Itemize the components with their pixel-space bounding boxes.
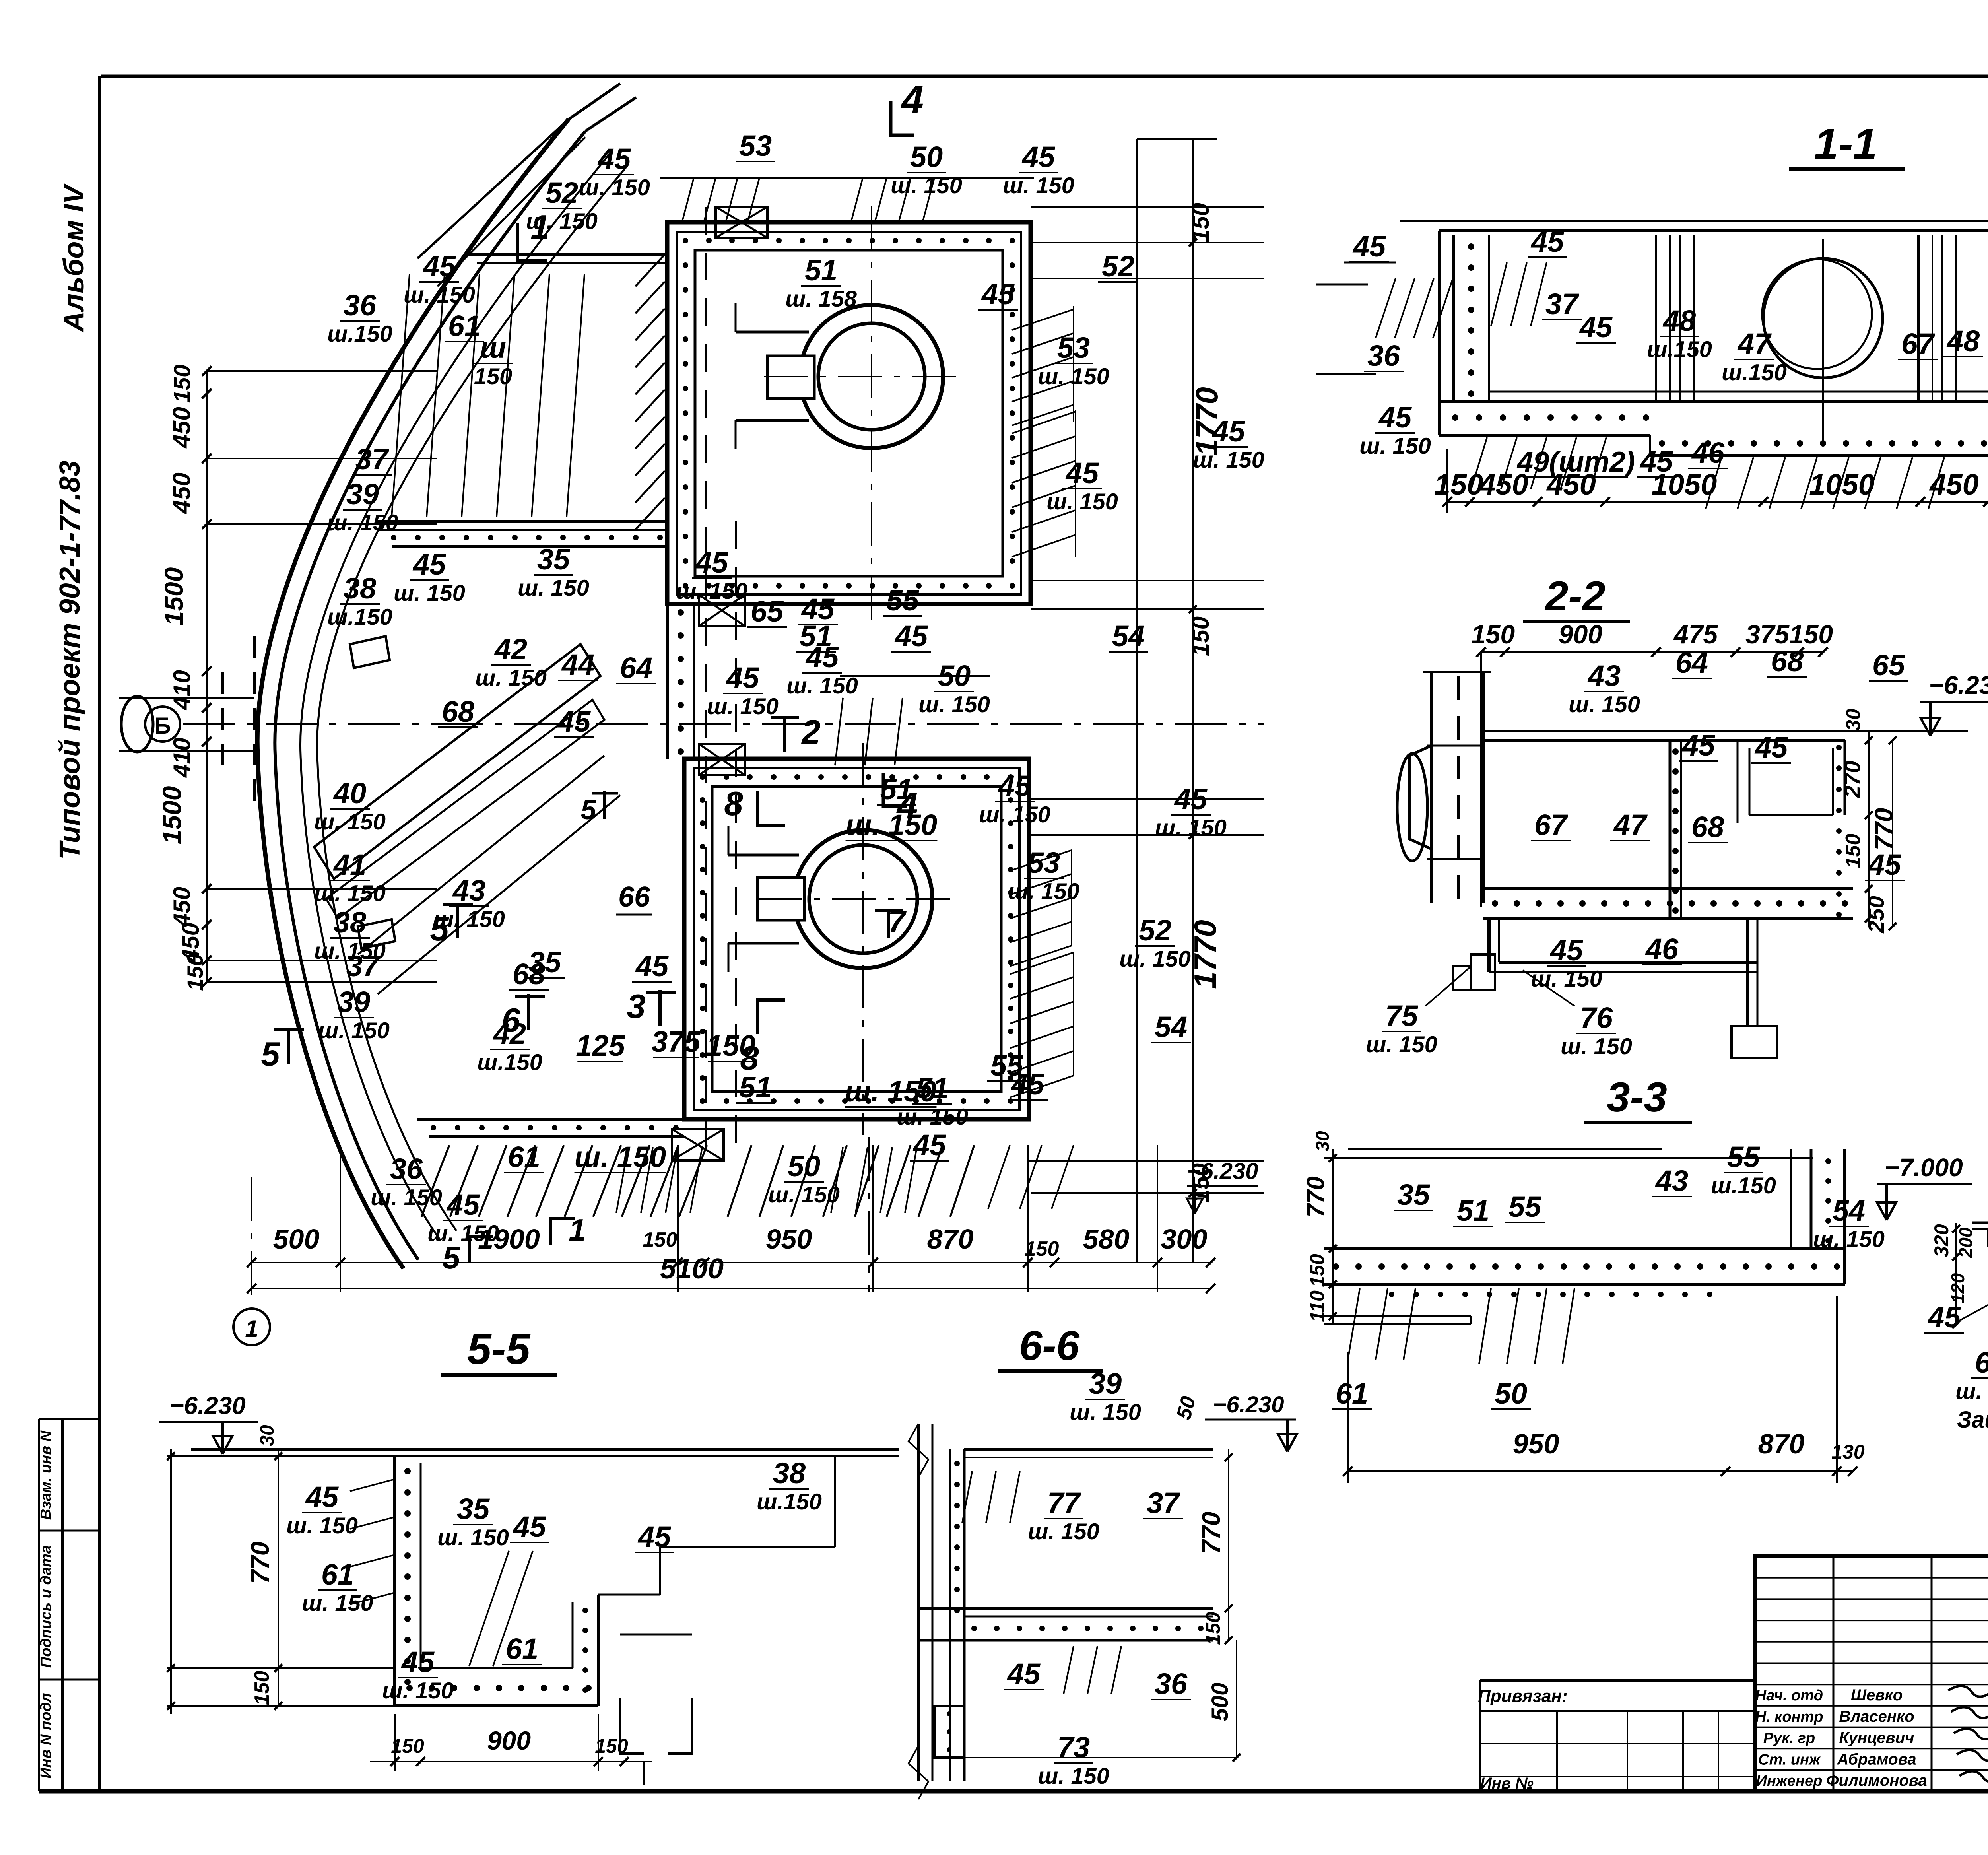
svg-text:30: 30: [1312, 1131, 1333, 1152]
svg-text:8: 8: [724, 785, 743, 823]
svg-text:ш. 150: ш. 150: [918, 692, 990, 717]
svg-text:50: 50: [910, 140, 943, 173]
svg-text:ш. 150: ш. 150: [371, 1185, 442, 1210]
svg-text:150: 150: [1202, 1612, 1224, 1645]
svg-text:3: 3: [627, 988, 645, 1026]
svg-text:45: 45: [1065, 456, 1099, 489]
svg-text:Б: Б: [154, 713, 171, 739]
svg-text:6-6: 6-6: [1019, 1323, 1079, 1369]
svg-text:35: 35: [528, 946, 562, 979]
svg-text:64: 64: [620, 651, 652, 684]
svg-text:53: 53: [739, 129, 772, 162]
svg-text:45: 45: [1927, 1301, 1961, 1334]
svg-text:450: 450: [168, 407, 196, 449]
svg-text:64: 64: [1675, 646, 1708, 679]
svg-text:36: 36: [390, 1152, 423, 1185]
svg-text:ш. 150: ш. 150: [286, 1513, 358, 1538]
svg-text:54: 54: [1833, 1194, 1865, 1227]
svg-text:−6.230: −6.230: [1213, 1392, 1284, 1418]
svg-text:7: 7: [888, 904, 907, 939]
svg-text:900: 900: [1559, 620, 1602, 649]
svg-text:475: 475: [1673, 620, 1718, 649]
svg-text:45: 45: [1549, 934, 1584, 967]
svg-text:45: 45: [1530, 225, 1565, 258]
svg-text:2: 2: [801, 713, 820, 751]
svg-text:Инженер: Инженер: [1756, 1773, 1823, 1789]
svg-text:66: 66: [618, 881, 650, 913]
svg-text:150: 150: [182, 954, 208, 991]
svg-text:38: 38: [344, 572, 377, 605]
svg-text:45: 45: [801, 592, 835, 625]
svg-text:ш. 150: ш. 150: [394, 581, 465, 606]
svg-text:Альбом IV: Альбом IV: [58, 183, 90, 332]
svg-text:ш. 150: ш. 150: [676, 579, 747, 604]
svg-text:37: 37: [1147, 1486, 1181, 1519]
svg-text:200: 200: [1955, 1227, 1976, 1258]
svg-text:43: 43: [1587, 659, 1621, 692]
svg-text:ш. 150: ш. 150: [518, 575, 589, 601]
svg-text:44: 44: [561, 648, 594, 681]
svg-text:270: 270: [1840, 761, 1865, 798]
svg-text:1: 1: [245, 1315, 258, 1342]
svg-text:39: 39: [346, 478, 379, 511]
svg-text:45: 45: [635, 950, 669, 983]
svg-text:ш. 150: ш. 150: [768, 1182, 840, 1208]
svg-text:45: 45: [637, 1520, 672, 1553]
svg-text:65: 65: [1872, 649, 1906, 682]
svg-text:−6.230: −6.230: [169, 1392, 245, 1420]
svg-text:450: 450: [168, 472, 196, 514]
svg-text:73: 73: [1057, 1731, 1090, 1764]
svg-text:61: 61: [1336, 1377, 1368, 1410]
svg-text:120: 120: [1947, 1273, 1968, 1303]
svg-text:55: 55: [886, 584, 920, 617]
svg-text:770: 770: [246, 1542, 274, 1584]
svg-text:450: 450: [1929, 468, 1978, 501]
svg-text:38: 38: [773, 1457, 806, 1490]
svg-text:45: 45: [1007, 1657, 1041, 1690]
svg-text:68: 68: [1691, 810, 1724, 843]
svg-text:ш.150: ш.150: [1722, 360, 1787, 385]
svg-text:150: 150: [391, 1735, 424, 1757]
svg-text:ш. 150: ш. 150: [1046, 489, 1118, 515]
svg-text:1500: 1500: [159, 567, 188, 625]
svg-text:ш. 150: ш. 150: [314, 881, 386, 906]
svg-text:4: 4: [901, 78, 924, 122]
svg-text:45: 45: [1681, 729, 1716, 762]
svg-text:1: 1: [569, 1212, 586, 1247]
svg-text:67: 67: [1534, 808, 1569, 841]
svg-text:39: 39: [1089, 1367, 1122, 1400]
svg-text:36: 36: [1155, 1667, 1188, 1700]
svg-text:48: 48: [1662, 304, 1696, 337]
svg-text:Привязан:: Привязан:: [1478, 1686, 1567, 1706]
svg-text:150: 150: [250, 1671, 274, 1705]
svg-text:39: 39: [338, 985, 370, 1018]
svg-text:ш. 150: ш. 150: [1038, 364, 1109, 389]
svg-text:53: 53: [1027, 846, 1060, 879]
svg-text:Шевко: Шевко: [1851, 1686, 1903, 1704]
svg-text:50: 50: [938, 659, 971, 692]
svg-text:ш. 150: ш. 150: [302, 1591, 373, 1616]
svg-text:45: 45: [422, 250, 456, 283]
svg-text:ш. 150: ш. 150: [1003, 173, 1074, 198]
svg-text:45: 45: [981, 278, 1015, 311]
svg-text:42: 42: [494, 633, 527, 666]
svg-text:1-1: 1-1: [1814, 120, 1877, 169]
svg-text:61: 61: [321, 1558, 354, 1591]
svg-text:Ст. инж: Ст. инж: [1758, 1751, 1821, 1768]
svg-text:54: 54: [1112, 620, 1145, 653]
svg-text:ш. 150: ш. 150: [382, 1678, 454, 1703]
svg-text:−6.230: −6.230: [1929, 671, 1988, 699]
svg-text:Филимонова: Филимонова: [1826, 1772, 1927, 1789]
svg-text:37: 37: [1545, 287, 1580, 320]
svg-text:61: 61: [506, 1632, 538, 1665]
svg-text:ш. 150: ш. 150: [575, 1140, 666, 1173]
svg-text:ш. 150: ш. 150: [318, 1018, 390, 1043]
svg-text:ш.150: ш.150: [477, 1050, 542, 1075]
svg-text:43: 43: [452, 874, 485, 907]
svg-text:770: 770: [1197, 1512, 1225, 1554]
svg-text:300: 300: [1161, 1224, 1208, 1255]
svg-text:110: 110: [1306, 1290, 1328, 1322]
svg-text:45: 45: [412, 548, 447, 581]
svg-text:55: 55: [1727, 1140, 1761, 1173]
svg-text:ш. 150: ш. 150: [786, 673, 858, 699]
svg-text:150: 150: [474, 364, 512, 389]
svg-text:Кунцевич: Кунцевич: [1839, 1729, 1914, 1747]
svg-text:45: 45: [1378, 401, 1412, 434]
svg-text:68: 68: [1771, 645, 1804, 678]
svg-text:45: 45: [894, 620, 928, 653]
svg-text:61: 61: [508, 1140, 540, 1173]
svg-text:ш. 150: ш. 150: [1359, 433, 1431, 459]
svg-text:45: 45: [557, 705, 591, 738]
svg-text:ш. 150: ш. 150: [475, 665, 547, 691]
svg-text:35: 35: [1397, 1178, 1431, 1211]
svg-text:150: 150: [1471, 620, 1515, 649]
svg-text:45: 45: [1579, 311, 1613, 344]
svg-text:150: 150: [1842, 834, 1865, 868]
svg-text:ш.150: ш.150: [1647, 337, 1712, 362]
svg-text:Инв N подл: Инв N подл: [38, 1693, 54, 1778]
svg-text:150: 150: [706, 1029, 755, 1062]
svg-text:30: 30: [1842, 709, 1864, 731]
svg-text:75: 75: [1385, 999, 1419, 1032]
svg-text:50: 50: [1495, 1377, 1527, 1410]
svg-text:55: 55: [1508, 1190, 1542, 1223]
svg-text:ш.150: ш.150: [327, 321, 392, 347]
svg-text:410: 410: [169, 738, 195, 778]
svg-text:35: 35: [457, 1492, 490, 1525]
svg-text:37: 37: [355, 443, 390, 476]
svg-text:ш.150: ш.150: [757, 1489, 822, 1515]
svg-text:43: 43: [1655, 1164, 1688, 1197]
svg-text:48: 48: [1946, 324, 1980, 357]
svg-text:375: 375: [651, 1025, 701, 1058]
svg-text:ш. 150: ш. 150: [897, 1104, 968, 1130]
svg-text:ш. 150: ш. 150: [437, 1525, 509, 1550]
svg-text:ш. 150: ш. 150: [845, 1075, 936, 1108]
svg-text:ш. 150: ш. 150: [427, 1221, 499, 1246]
svg-text:Абрамова: Абрамова: [1837, 1750, 1916, 1768]
svg-text:45: 45: [998, 769, 1032, 802]
svg-text:51: 51: [1457, 1194, 1489, 1227]
svg-text:45: 45: [1174, 783, 1208, 816]
svg-text:250: 250: [1864, 896, 1889, 933]
svg-text:ш.150: ш.150: [327, 604, 392, 630]
svg-text:ш. 150: ш. 150: [1569, 692, 1640, 717]
svg-text:50: 50: [788, 1150, 820, 1183]
svg-text:47: 47: [1737, 327, 1772, 360]
svg-text:47: 47: [1613, 808, 1648, 841]
svg-text:5: 5: [581, 794, 597, 825]
svg-text:45: 45: [1868, 848, 1902, 881]
svg-text:320: 320: [1930, 1224, 1953, 1257]
svg-text:950: 950: [766, 1224, 812, 1255]
svg-text:−6.230: −6.230: [1187, 1158, 1258, 1184]
svg-text:150: 150: [595, 1735, 628, 1757]
svg-text:67: 67: [1901, 327, 1936, 360]
svg-text:150: 150: [1434, 468, 1483, 501]
svg-text:410: 410: [169, 670, 195, 710]
svg-text:ш. 150: ш. 150: [1561, 1034, 1632, 1059]
svg-text:−7.000: −7.000: [1884, 1153, 1963, 1182]
svg-text:ш. 150: ш. 150: [314, 938, 386, 964]
svg-text:45: 45: [597, 142, 631, 175]
svg-text:54: 54: [1155, 1010, 1187, 1043]
svg-text:ш. 150: ш. 150: [327, 510, 398, 536]
svg-text:45: 45: [912, 1129, 947, 1162]
svg-text:450: 450: [169, 887, 195, 927]
svg-text:62: 62: [1975, 1346, 1988, 1379]
svg-text:46: 46: [1645, 932, 1679, 965]
svg-text:52: 52: [546, 176, 578, 209]
svg-text:ш. 150: ш. 150: [579, 175, 650, 200]
svg-text:ш. 150: ш. 150: [314, 809, 386, 835]
svg-text:770: 770: [1870, 808, 1898, 851]
svg-text:ш. 150: ш. 150: [1813, 1227, 1885, 1252]
svg-text:ш. 150: ш. 150: [1955, 1379, 1988, 1404]
svg-text:68: 68: [442, 695, 475, 728]
svg-text:500: 500: [273, 1224, 320, 1255]
svg-text:ш. 150: ш. 150: [1119, 946, 1191, 972]
svg-text:580: 580: [1083, 1224, 1130, 1255]
svg-text:45: 45: [1352, 230, 1386, 263]
svg-text:45: 45: [805, 641, 839, 674]
svg-text:150: 150: [1025, 1237, 1059, 1261]
svg-text:46: 46: [1691, 436, 1725, 469]
svg-text:5-5: 5-5: [467, 1325, 531, 1373]
svg-text:Нач. отд: Нач. отд: [1755, 1687, 1823, 1704]
svg-text:51: 51: [805, 254, 837, 287]
svg-text:45: 45: [695, 546, 729, 579]
svg-text:870: 870: [1758, 1428, 1805, 1459]
svg-text:ш. 150: ш. 150: [707, 694, 779, 719]
svg-text:45: 45: [513, 1510, 547, 1543]
svg-text:45: 45: [305, 1480, 339, 1513]
svg-text:35: 35: [537, 543, 571, 576]
svg-text:45: 45: [1639, 445, 1673, 478]
svg-text:ш. 150: ш. 150: [891, 173, 962, 198]
svg-text:3-3: 3-3: [1607, 1074, 1667, 1121]
svg-text:45: 45: [401, 1645, 435, 1678]
svg-text:45: 45: [726, 661, 760, 694]
svg-text:ш. 150: ш. 150: [404, 282, 475, 308]
svg-text:ш. 158: ш. 158: [785, 286, 857, 312]
svg-text:ш.150: ш.150: [1711, 1173, 1776, 1198]
svg-text:ш. 150: ш. 150: [1366, 1032, 1437, 1057]
svg-text:76: 76: [1580, 1001, 1613, 1034]
svg-text:ш. 150: ш. 150: [526, 209, 598, 234]
svg-text:870: 870: [927, 1224, 974, 1255]
svg-text:ш. 150: ш. 150: [1028, 1519, 1099, 1544]
svg-text:ш. 150: ш. 150: [1531, 966, 1602, 992]
svg-text:1050: 1050: [1809, 468, 1875, 501]
svg-text:900: 900: [487, 1726, 531, 1755]
svg-text:ш. 150: ш. 150: [846, 808, 937, 841]
svg-text:ш. 150: ш. 150: [1070, 1400, 1141, 1425]
svg-text:150: 150: [1306, 1254, 1328, 1287]
svg-text:Подпись и дата: Подпись и дата: [38, 1545, 54, 1668]
svg-text:2-2: 2-2: [1544, 573, 1606, 620]
svg-text:30: 30: [257, 1425, 278, 1446]
svg-text:500: 500: [1207, 1683, 1233, 1721]
svg-text:36: 36: [344, 289, 377, 322]
svg-text:77: 77: [1047, 1486, 1081, 1519]
svg-text:Защитный слой бетона для рабо: Защитный слой бетона для рабочей арма-: [1957, 1407, 1988, 1433]
svg-text:51: 51: [880, 773, 913, 806]
svg-text:42: 42: [493, 1017, 526, 1050]
svg-text:770: 770: [1302, 1176, 1330, 1217]
svg-text:ш. 150: ш. 150: [1008, 879, 1079, 904]
svg-text:1770: 1770: [1188, 920, 1223, 989]
svg-text:ш: ш: [480, 331, 506, 364]
svg-text:40: 40: [333, 777, 366, 810]
svg-text:Взам. инв N: Взам. инв N: [38, 1430, 54, 1520]
svg-text:36: 36: [1367, 339, 1400, 372]
svg-text:52: 52: [1102, 250, 1134, 283]
svg-text:45: 45: [1011, 1068, 1045, 1101]
svg-text:150: 150: [1187, 203, 1214, 243]
svg-text:53: 53: [1057, 331, 1090, 364]
svg-text:51: 51: [739, 1071, 772, 1104]
svg-text:45: 45: [446, 1188, 480, 1221]
svg-text:Рук. гр: Рук. гр: [1763, 1730, 1815, 1747]
svg-text:61: 61: [448, 309, 481, 342]
svg-text:65: 65: [751, 595, 784, 628]
svg-text:125: 125: [576, 1029, 625, 1062]
svg-text:45: 45: [1754, 731, 1788, 764]
svg-text:41: 41: [333, 848, 366, 881]
svg-text:Инв №: Инв №: [1480, 1775, 1534, 1792]
svg-text:ш. 150: ш. 150: [1193, 447, 1264, 473]
svg-text:150: 150: [643, 1228, 678, 1251]
svg-text:ш. 150: ш. 150: [1038, 1764, 1109, 1789]
svg-text:ш. 150: ш. 150: [433, 907, 505, 932]
svg-text:49(шт2): 49(шт2): [1516, 446, 1635, 478]
svg-text:ш. 150: ш. 150: [979, 802, 1050, 827]
svg-text:5: 5: [261, 1035, 280, 1073]
svg-text:ш. 150: ш. 150: [1155, 815, 1227, 841]
svg-text:45: 45: [1211, 415, 1246, 448]
svg-text:45: 45: [1021, 140, 1056, 173]
svg-text:150: 150: [169, 365, 195, 403]
svg-text:Н. контр: Н. контр: [1755, 1709, 1823, 1725]
svg-text:52: 52: [1139, 914, 1171, 947]
svg-text:Типовой проект 902-1-77.83: Типовой проект 902-1-77.83: [54, 460, 86, 860]
svg-text:150: 150: [1187, 616, 1214, 656]
svg-text:1500: 1500: [157, 786, 186, 844]
svg-text:38: 38: [334, 906, 367, 939]
svg-text:950: 950: [1513, 1428, 1559, 1459]
svg-text:5100: 5100: [660, 1253, 724, 1285]
svg-text:Власенко: Власенко: [1839, 1708, 1914, 1725]
